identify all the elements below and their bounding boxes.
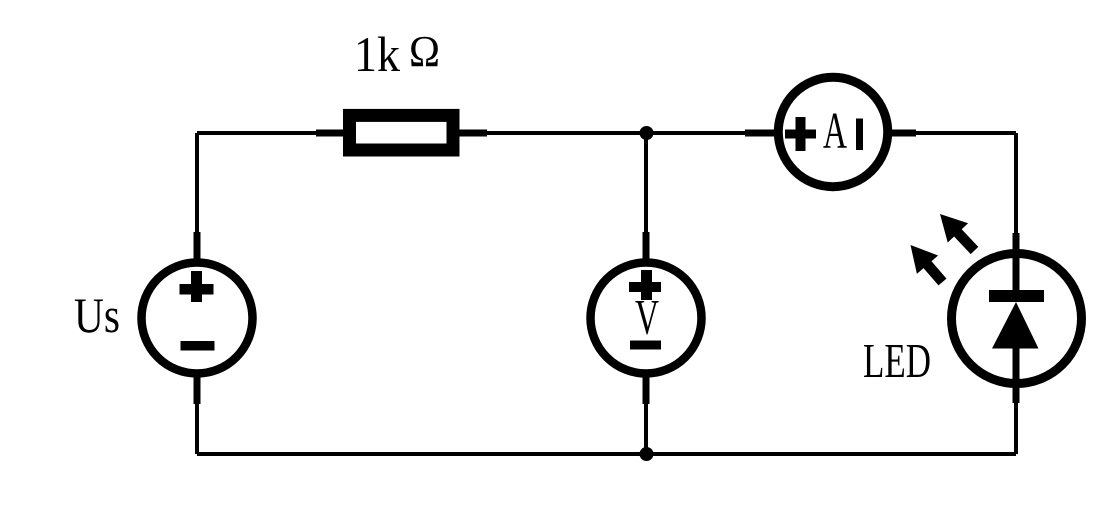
svg-text:LED: LED [863,333,931,388]
svg-text:A: A [823,103,847,160]
svg-text:Ω: Ω [409,27,440,76]
svg-text:Us: Us [74,287,120,343]
svg-text:1k: 1k [354,26,400,82]
svg-text:V: V [635,289,659,345]
